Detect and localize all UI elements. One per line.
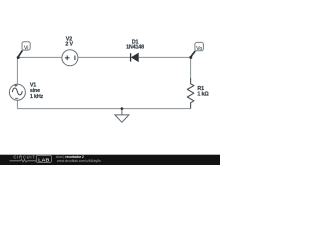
voltage source V1 body — [9, 84, 25, 100]
svg-text:Vo: Vo — [196, 46, 202, 52]
V2 plus sign — [65, 56, 70, 61]
resistor R1 — [187, 78, 194, 109]
svg-text:2 V: 2 V — [65, 42, 73, 48]
wire left vertical — [16, 57, 18, 84]
wire top rail right segment — [138, 56, 190, 58]
wire top rail middle segment — [78, 56, 130, 58]
V1 sine wave — [12, 88, 22, 95]
svg-text:1 kΩ: 1 kΩ — [197, 92, 209, 98]
wire left vertical lower — [16, 101, 18, 109]
node Vi pointer — [18, 50, 22, 56]
V1 minus sign — [15, 97, 18, 99]
svg-text:1 kHz: 1 kHz — [30, 94, 44, 100]
diode D1 triangle — [131, 53, 138, 61]
node Vi anchor — [17, 56, 20, 59]
V1 plus sign — [14, 84, 17, 87]
svg-text:CIRCUIT: CIRCUIT — [13, 154, 35, 159]
junction dot ground — [121, 107, 124, 110]
watermark logo trace — [10, 160, 37, 162]
svg-text:Vi: Vi — [24, 45, 28, 51]
ground stub — [121, 109, 123, 115]
diode D1 cathode bar — [130, 53, 132, 61]
node Vo pointer — [191, 51, 195, 56]
wire bottom rail — [17, 108, 190, 110]
wire top rail left segment — [18, 56, 62, 58]
voltage source V2 body — [62, 50, 78, 66]
V2 minus sign (rotated) — [74, 56, 76, 61]
node Vo anchor — [189, 56, 192, 59]
wire right vertical upper — [190, 57, 192, 78]
svg-text:1N4148: 1N4148 — [126, 45, 144, 51]
node Vi box — [22, 42, 30, 50]
svg-text:LAB: LAB — [38, 158, 49, 163]
node Vo box — [195, 42, 204, 50]
watermark logo LAB box — [36, 155, 51, 162]
watermark bar — [0, 155, 220, 165]
svg-text:www.circuitlab.com/c/46kby5s: www.circuitlab.com/c/46kby5s — [57, 159, 101, 163]
ground triangle — [115, 115, 129, 122]
